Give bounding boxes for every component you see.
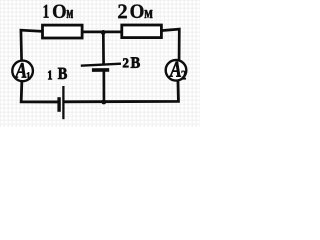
battery GB1 positive plate (long thin) — [62, 86, 64, 119]
wire middle branch upper — [102, 32, 105, 66]
R2 letter м — [145, 10, 153, 18]
R2 digit 2 — [118, 4, 127, 18]
A2 subscript 2 — [181, 71, 185, 80]
R1 digit 1 — [44, 5, 49, 18]
ammeter A1 circle — [12, 61, 33, 82]
node bottom junction — [101, 100, 106, 105]
ammeter A2 circle — [166, 60, 187, 81]
GB1 digit 1 — [48, 71, 52, 80]
A2 letter A — [169, 62, 181, 77]
resistor R2 (2 Ом) — [122, 25, 162, 38]
wire top-right corner run: R2 to A2 — [161, 29, 179, 60]
battery GB1 negative plate (short thick) — [57, 97, 60, 112]
wire top-left corner run: R1 to A1 — [21, 30, 43, 61]
GB2 digit 2 — [123, 58, 128, 67]
node top junction — [101, 30, 106, 35]
wire top-middle: R1 to R2 through node — [82, 31, 122, 34]
R2 letter О — [131, 5, 144, 18]
GB1 letter В — [58, 68, 67, 79]
wire bottom-left corner run: A1 to battery GB1 — [21, 81, 59, 102]
R1 letter О — [53, 5, 66, 18]
battery GB2 negative plate (short thick) — [92, 68, 109, 72]
A1 subscript 1 — [27, 72, 30, 79]
wire middle branch lower — [102, 70, 105, 102]
GB2 letter В — [131, 57, 140, 67]
resistor R1 (1 Ом) — [43, 25, 83, 38]
A1 letter A — [15, 63, 27, 78]
battery GB2 positive plate (long thin) — [81, 64, 121, 66]
R1 letter м — [67, 10, 73, 18]
wire bottom-right corner run: battery GB1 to A2 — [63, 81, 178, 102]
